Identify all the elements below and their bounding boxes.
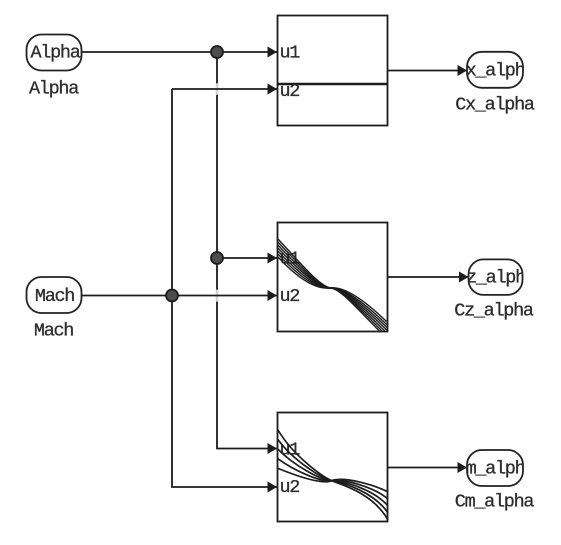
svg-text:Cm_alpha: Cm_alpha — [455, 492, 535, 513]
svg-text:u2: u2 — [280, 477, 300, 498]
svg-text:Cx_alpha: Cx_alpha — [455, 95, 535, 116]
svg-text:u1: u1 — [280, 440, 301, 461]
svg-text:u2: u2 — [280, 81, 300, 102]
svg-text:Alpha: Alpha — [30, 42, 80, 63]
svg-text:Mach: Mach — [34, 321, 73, 342]
svg-text:Mach: Mach — [35, 286, 74, 307]
svg-text:u1: u1 — [280, 43, 301, 64]
svg-text:Alpha: Alpha — [29, 79, 79, 100]
svg-text:u2: u2 — [280, 286, 300, 307]
svg-text:Cz_alpha: Cz_alpha — [454, 301, 534, 322]
